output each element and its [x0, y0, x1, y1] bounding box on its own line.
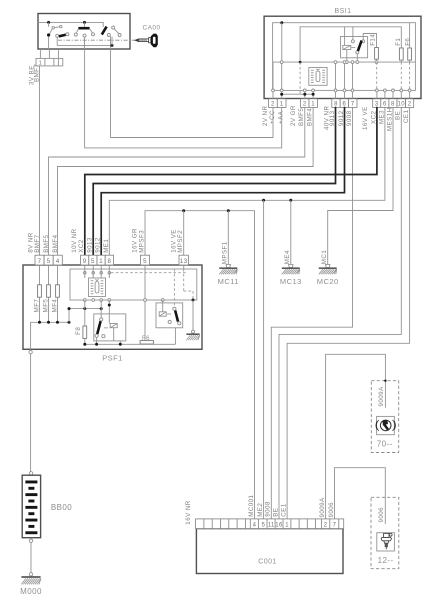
svg-text:1: 1 — [280, 101, 284, 107]
svg-text:MC20: MC20 — [317, 277, 339, 286]
svg-text:1: 1 — [285, 523, 289, 529]
svg-text:CA00: CA00 — [143, 25, 161, 32]
svg-text:16V VE: 16V VE — [362, 106, 369, 130]
svg-text:BMF5: BMF5 — [298, 108, 305, 126]
svg-text:F1: F1 — [395, 38, 402, 46]
svg-text:2V NR: 2V NR — [262, 105, 269, 126]
svg-text:BE: BE — [395, 111, 402, 120]
svg-text:12--: 12-- — [378, 556, 394, 565]
svg-text:3: 3 — [375, 101, 379, 107]
svg-text:F14: F14 — [369, 34, 376, 46]
svg-text:1: 1 — [99, 259, 103, 265]
svg-text:MPSF1: MPSF1 — [222, 241, 229, 264]
svg-text:M000: M000 — [20, 587, 42, 596]
svg-text:BE: BE — [272, 508, 279, 517]
svg-text:F8: F8 — [75, 327, 82, 335]
svg-text:5: 5 — [262, 523, 266, 529]
svg-text:MF4: MF4 — [52, 299, 59, 313]
svg-text:MPSF3: MPSF3 — [138, 230, 145, 253]
svg-text:6: 6 — [383, 101, 387, 107]
svg-text:2V GR: 2V GR — [290, 105, 297, 126]
svg-text:16: 16 — [275, 523, 283, 529]
svg-text:BMF4: BMF4 — [306, 108, 313, 126]
svg-text:9013: 9013 — [87, 237, 94, 253]
svg-text:MC001: MC001 — [248, 494, 255, 516]
svg-text:C001: C001 — [258, 559, 277, 566]
svg-text:2: 2 — [303, 101, 307, 107]
svg-text:2: 2 — [408, 101, 412, 107]
svg-text:2: 2 — [324, 523, 328, 529]
svg-text:16V NR: 16V NR — [185, 500, 192, 524]
svg-text:MF5: MF5 — [43, 299, 50, 313]
svg-text:MC13: MC13 — [280, 277, 302, 286]
svg-text:8: 8 — [391, 101, 395, 107]
svg-text:BSI1: BSI1 — [335, 8, 352, 15]
svg-text:MF7: MF7 — [34, 299, 41, 313]
svg-text:9006: 9006 — [328, 502, 335, 518]
svg-text:CE1: CE1 — [281, 503, 288, 516]
svg-text:7: 7 — [38, 259, 42, 265]
svg-text:9006: 9006 — [378, 507, 385, 523]
svg-text:MES1H: MES1H — [386, 107, 393, 131]
svg-text:ME3: ME3 — [378, 110, 385, 124]
svg-text:BMF5: BMF5 — [43, 234, 50, 252]
svg-text:XC2: XC2 — [78, 239, 85, 252]
svg-text:BMF7: BMF7 — [34, 234, 41, 252]
svg-text:13: 13 — [180, 259, 188, 265]
svg-text:9012: 9012 — [95, 237, 102, 253]
svg-text:MC11: MC11 — [218, 277, 239, 286]
svg-text:PSF1: PSF1 — [102, 354, 123, 363]
svg-text:MC1: MC1 — [321, 250, 328, 265]
svg-text:F6: F6 — [404, 38, 411, 46]
svg-text:4: 4 — [253, 523, 257, 529]
svg-text:5: 5 — [91, 259, 95, 265]
svg-text:5: 5 — [47, 259, 51, 265]
svg-text:9009A: 9009A — [319, 497, 326, 518]
svg-text:9008: 9008 — [265, 501, 272, 517]
svg-text:5: 5 — [143, 259, 147, 265]
svg-text:9009A: 9009A — [378, 386, 385, 407]
svg-text:70--: 70-- — [377, 440, 393, 449]
svg-text:+CC: +CC — [269, 110, 276, 124]
svg-text:6: 6 — [343, 101, 347, 107]
svg-text:CE1: CE1 — [403, 110, 410, 123]
svg-text:1: 1 — [311, 101, 315, 107]
svg-text:MPSF2: MPSF2 — [177, 230, 184, 253]
svg-text:2: 2 — [271, 101, 275, 107]
svg-text:4: 4 — [56, 259, 60, 265]
svg-text:10: 10 — [398, 101, 406, 107]
svg-text:8: 8 — [334, 101, 338, 107]
svg-text:ME1: ME1 — [103, 239, 110, 253]
svg-text:BB00: BB00 — [51, 503, 72, 512]
svg-text:10V NR: 10V NR — [71, 228, 78, 252]
svg-text:9: 9 — [83, 259, 87, 265]
svg-text:+AA: +AA — [277, 110, 284, 124]
svg-text:11: 11 — [268, 523, 275, 529]
svg-text:7: 7 — [333, 523, 337, 529]
svg-text:7: 7 — [351, 101, 355, 107]
svg-text:BMF4: BMF4 — [52, 234, 59, 252]
svg-text:8: 8 — [108, 259, 112, 265]
svg-text:ME2: ME2 — [257, 503, 264, 517]
svg-text:9008: 9008 — [346, 110, 353, 126]
svg-text:ME4: ME4 — [284, 250, 291, 264]
